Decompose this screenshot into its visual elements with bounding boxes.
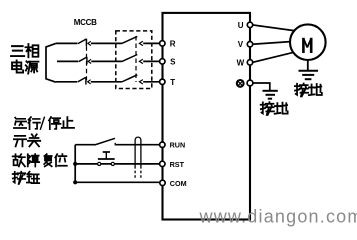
svg-text:www.diangon.com: www.diangon.com xyxy=(199,207,357,227)
svg-text:U: U xyxy=(238,21,244,30)
svg-text:RUN: RUN xyxy=(170,140,186,149)
svg-text:R: R xyxy=(170,39,176,48)
svg-text:V: V xyxy=(238,40,244,49)
svg-text:RST: RST xyxy=(170,160,185,169)
svg-text:T: T xyxy=(170,78,175,87)
svg-text:W: W xyxy=(237,59,245,68)
svg-text:S: S xyxy=(170,57,176,66)
svg-text:MCCB: MCCB xyxy=(74,18,97,27)
svg-text:COM: COM xyxy=(170,179,187,188)
